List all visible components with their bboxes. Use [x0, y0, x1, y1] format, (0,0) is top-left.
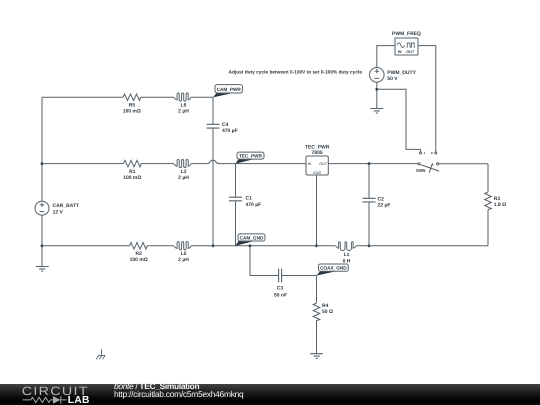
svg-text:C4: C4 [222, 122, 229, 128]
logo schematic glyph (resistor + diode) [23, 396, 67, 404]
label R3 [494, 196, 506, 208]
chassis ground [96, 349, 105, 359]
svg-text:L3: L3 [181, 169, 187, 175]
wire SW5 to R3 [439, 164, 488, 192]
label R2 [130, 251, 148, 263]
svg-text:100 mΩ: 100 mΩ [123, 109, 141, 115]
svg-text:L1: L1 [344, 252, 350, 258]
junction battery-bottom-rail [41, 244, 44, 247]
capacitor C4 [207, 97, 220, 246]
svg-text:470 µF: 470 µF [246, 202, 262, 208]
wire C3 to COAX_GND [282, 275, 317, 277]
wire L5 to L1 [191, 245, 335, 247]
switch SW5 [418, 152, 439, 173]
label C3 [274, 285, 287, 298]
svg-text:2 µH: 2 µH [178, 257, 189, 263]
svg-text:C3: C3 [277, 285, 284, 291]
inductor L5 [174, 242, 192, 250]
svg-text:12 V: 12 V [53, 209, 64, 215]
wire R5 to L6 [141, 96, 174, 98]
label L1 [343, 252, 351, 264]
wire R4 to ground [316, 321, 318, 354]
svg-text:L6: L6 [181, 103, 187, 109]
label L5 [178, 251, 189, 263]
label C2 [378, 196, 391, 208]
wire COAX_GND to R4 [316, 276, 318, 304]
junction C2 bottom [368, 244, 371, 247]
svg-text:IN: IN [308, 162, 312, 166]
node CAM_GND [236, 234, 266, 246]
svg-text:L5: L5 [181, 251, 187, 257]
wire L6 to CAM_PWR node [191, 96, 213, 98]
label CAR_BATT value [53, 203, 80, 215]
svg-text:100 mΩ: 100 mΩ [130, 257, 148, 263]
label L3 [178, 169, 189, 181]
inductor L6 [174, 93, 192, 101]
svg-text:C1: C1 [246, 196, 253, 202]
capacitor C3 [279, 269, 282, 283]
svg-text:1.8 Ω: 1.8 Ω [494, 202, 506, 208]
wire bottom rail left [42, 245, 130, 247]
wire middle rail left [42, 163, 124, 165]
resistor R1 [124, 160, 142, 167]
capacitor C1 [229, 164, 242, 246]
node COAX_GND [317, 264, 349, 276]
label R1 [123, 169, 141, 181]
svg-text:22 µF: 22 µF [378, 203, 391, 209]
resistor R4 [313, 303, 320, 321]
svg-text:470 µF: 470 µF [222, 128, 238, 134]
inductor L1 [336, 242, 357, 251]
svg-text:CAR_BATT: CAR_BATT [53, 203, 80, 209]
junction C2 top [368, 162, 371, 165]
svg-text:CAM_PWR: CAM_PWR [217, 87, 242, 92]
svg-text:R4: R4 [322, 303, 329, 309]
label R5 [123, 103, 141, 115]
wire left column top [41, 97, 43, 201]
junction 7805 GND at rail [315, 244, 318, 247]
wire PWM_DUTY bottom [376, 82, 378, 108]
behavioural source PWM_FREQ [395, 38, 418, 55]
voltage source PWM_DUTY [370, 68, 385, 83]
wire R2 to L5 [147, 245, 173, 247]
ground PWM [370, 109, 383, 114]
resistor R3 [485, 192, 492, 210]
ground R4 [310, 354, 323, 359]
wire 7805 OUT rail [328, 163, 417, 165]
wire 7805 GND down [316, 175, 318, 246]
svg-text:R1: R1 [129, 169, 136, 175]
node TEC_PWR [236, 152, 265, 164]
wire L1 to R3 bottom [356, 245, 488, 247]
svg-text:CAM_GND: CAM_GND [240, 235, 264, 240]
regulator U1 TEC_PWR 7805 [305, 144, 330, 175]
svg-text:IN: IN [398, 50, 402, 54]
svg-text:Adjust duty cycle between 0-10: Adjust duty cycle between 0-100V to set … [229, 69, 363, 75]
wire PWM_FREQ OUT to switch plus terminal [418, 46, 436, 152]
svg-text:OUT: OUT [406, 50, 415, 54]
wire R1 to L3 [141, 163, 173, 165]
svg-text:PWM_FREQ: PWM_FREQ [392, 31, 421, 37]
junction C4 bottom [212, 244, 215, 247]
svg-text:50 nF: 50 nF [274, 293, 287, 299]
label C4 [222, 122, 238, 134]
svg-text:TEC_PWR: TEC_PWR [239, 153, 263, 158]
resistor R2 [130, 243, 148, 250]
svg-text:2 µH: 2 µH [178, 109, 189, 115]
footer bar [0, 384, 540, 405]
svg-text:GND: GND [313, 171, 322, 175]
junction CAM_GND rail [249, 244, 252, 247]
svg-text:OUT: OUT [319, 162, 328, 166]
svg-text:100 mΩ: 100 mΩ [123, 175, 141, 181]
svg-text:LAB: LAB [68, 395, 90, 405]
wire PWM_DUTY top to PWM_FREQ [377, 46, 395, 68]
label L6 [178, 103, 189, 115]
node CAM_PWR [213, 85, 242, 98]
label PWM_DUTY [387, 70, 416, 82]
svg-text:R3: R3 [494, 196, 501, 202]
junction PWM_DUTY bottom [375, 88, 378, 91]
capacitor C2 [363, 164, 376, 246]
wire C3 branch [250, 246, 278, 276]
svg-text:50 Ω: 50 Ω [322, 309, 333, 315]
svg-text:http://circuitlab.com/c5m5exh4: http://circuitlab.com/c5m5exh46mknq [114, 389, 244, 399]
svg-text:SW5: SW5 [416, 168, 426, 173]
wire top rail [42, 96, 123, 98]
resistor R5 [123, 94, 141, 101]
wire PWM_DUTY to switch minus terminal [377, 89, 421, 152]
CircuitLab logo and footer text [0, 380, 540, 405]
svg-text:COAX_GND: COAX_GND [320, 266, 347, 271]
inductor L3 [174, 159, 192, 167]
svg-text:R2: R2 [135, 251, 142, 257]
wire battery bottom [41, 215, 43, 266]
svg-text:50 V: 50 V [387, 76, 398, 82]
svg-text:R5: R5 [129, 103, 136, 109]
svg-text:7805: 7805 [312, 150, 323, 156]
wire L3 to hop and TEC_PWR node [191, 160, 306, 164]
svg-text:2 µH: 2 µH [178, 175, 189, 181]
voltage source CAR_BATT [35, 201, 49, 215]
svg-text:C2: C2 [378, 196, 385, 202]
label C1 [246, 196, 262, 208]
ground battery [36, 267, 49, 272]
label R4 [322, 303, 333, 315]
wire R3 bottom [487, 210, 489, 246]
junction left-middle-rail [41, 162, 44, 165]
